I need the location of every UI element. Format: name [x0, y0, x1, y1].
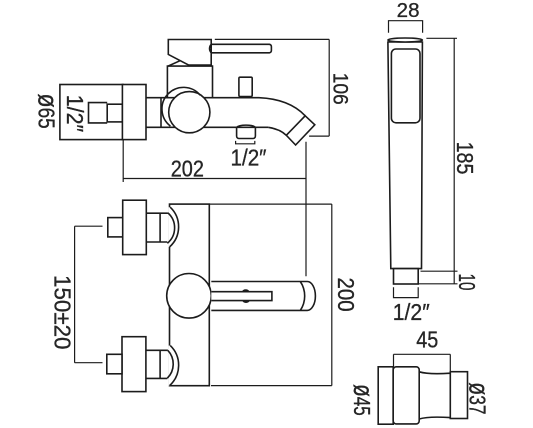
- svg-text:28: 28: [397, 0, 420, 22]
- svg-text:185: 185: [452, 142, 478, 175]
- svg-text:1/2″: 1/2″: [62, 95, 88, 132]
- svg-text:1/2″: 1/2″: [231, 145, 267, 171]
- svg-text:1/2″: 1/2″: [393, 299, 430, 325]
- svg-text:200: 200: [333, 278, 359, 312]
- svg-text:150±20: 150±20: [50, 275, 76, 350]
- svg-text:45: 45: [416, 327, 438, 353]
- svg-text:ø45: ø45: [348, 384, 379, 416]
- svg-text:ø65: ø65: [32, 94, 63, 129]
- svg-text:10: 10: [454, 274, 480, 291]
- svg-text:ø37: ø37: [464, 382, 495, 414]
- svg-text:106: 106: [329, 73, 352, 105]
- svg-text:202: 202: [171, 156, 204, 182]
